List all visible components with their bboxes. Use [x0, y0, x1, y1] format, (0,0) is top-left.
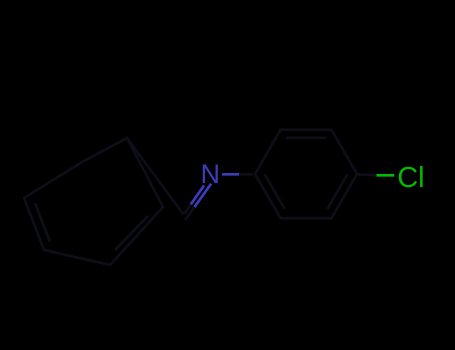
svg-text:Cl: Cl — [397, 162, 424, 194]
wire inner double bond left edge — [35, 203, 50, 242]
svg-text:N: N — [201, 159, 221, 189]
wire ring outline — [24, 138, 163, 265]
bond ring to Cl (half green) — [357, 174, 377, 175]
wire inner double bond bottom-right edge — [327, 174, 347, 209]
right benzene ring (4-chlorophenyl) — [255, 130, 357, 218]
wire inner double bond bottom-left edge — [265, 174, 285, 209]
left benzene ring (phenyl) — [24, 138, 163, 265]
C=N double bond (half blue near N) — [185, 207, 194, 220]
bond N to right ring (half blue) — [222, 173, 240, 176]
bond ring to CH (long straight chain line) — [127, 138, 184, 215]
wire inner double bond top edge — [286, 136, 326, 139]
wire inner double bond bottom-right edge — [115, 216, 148, 250]
